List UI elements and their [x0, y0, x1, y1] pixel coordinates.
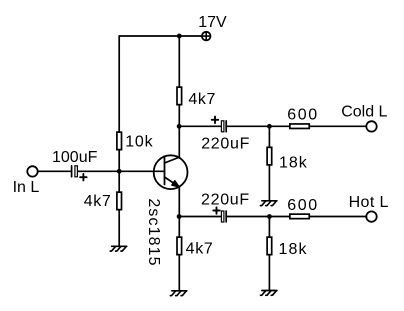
svg-text:In L: In L: [13, 179, 40, 196]
svg-text:18k: 18k: [279, 155, 308, 172]
capacitor 100uF: [52, 149, 98, 181]
svg-text:220uF: 220uF: [201, 191, 250, 208]
wire 18k to ground: [268, 166, 270, 201]
ground: [261, 201, 277, 206]
node collector (junction dot): [177, 124, 182, 129]
node emitter (junction dot): [177, 214, 182, 219]
resistor 600 (cold): [287, 107, 319, 129]
wire emitter vertical: [178, 187, 180, 237]
svg-text:2sc1815: 2sc1815: [145, 198, 162, 266]
wire 18k to ground: [268, 256, 270, 291]
resistor 4k7 (emitter): [177, 237, 214, 258]
resistor 18k (hot): [267, 237, 308, 258]
svg-text:600: 600: [287, 197, 319, 214]
ground: [110, 246, 126, 251]
svg-text:4k7: 4k7: [186, 241, 214, 258]
wire left vertical mid: [118, 151, 120, 192]
wire to 600 (bottom): [227, 216, 289, 218]
wire left vertical upper: [118, 36, 120, 132]
svg-text:17V: 17V: [198, 14, 227, 31]
wire emitter 4k7 to ground: [178, 256, 180, 291]
wire right vertical (bottom 18k): [268, 217, 270, 238]
wire to 600 (top): [227, 125, 289, 127]
svg-text:4k7: 4k7: [188, 91, 216, 108]
resistor 4k7 (base divider): [84, 192, 122, 210]
terminal Hot L: [349, 194, 389, 222]
terminal In L: [13, 166, 40, 196]
svg-text:220uF: 220uF: [201, 136, 250, 153]
power terminal 17V: [198, 14, 227, 40]
svg-text:4k7: 4k7: [84, 193, 112, 210]
wire top rail: [119, 35, 201, 37]
wire input left: [38, 170, 71, 172]
wire center vertical top: [178, 36, 180, 87]
ground: [170, 291, 186, 296]
junction dot top rail: [177, 34, 182, 39]
capacitor 220uF (cold out): [201, 117, 250, 153]
wire to Hot L: [310, 216, 366, 218]
svg-text:10k: 10k: [125, 133, 153, 150]
transistor Q1 2sc1815: [145, 155, 188, 266]
svg-text:Cold L: Cold L: [341, 104, 387, 121]
wire left vertical lower: [118, 210, 120, 246]
svg-text:18k: 18k: [279, 241, 308, 258]
wire collector row: [179, 125, 220, 127]
node base (junction dot): [117, 169, 122, 174]
resistor 4k7 (collector): [177, 87, 216, 108]
capacitor 220uF (hot out): [201, 191, 250, 222]
ground: [261, 291, 277, 296]
node cold junction (dot): [267, 124, 272, 129]
wire collector: [178, 106, 180, 158]
resistor 600 (hot): [287, 197, 319, 219]
wire emitter row: [179, 216, 220, 218]
terminal Cold L: [341, 104, 387, 132]
wire right vertical (top 18k): [268, 126, 270, 147]
resistor 10k: [117, 132, 154, 150]
wire to Cold L: [310, 125, 366, 127]
resistor 18k (cold): [267, 147, 308, 171]
wire base: [78, 170, 165, 172]
node hot junction (dot): [267, 214, 272, 219]
svg-text:600: 600: [287, 107, 319, 124]
svg-text:Hot L: Hot L: [349, 194, 389, 211]
svg-text:100uF: 100uF: [52, 149, 98, 166]
